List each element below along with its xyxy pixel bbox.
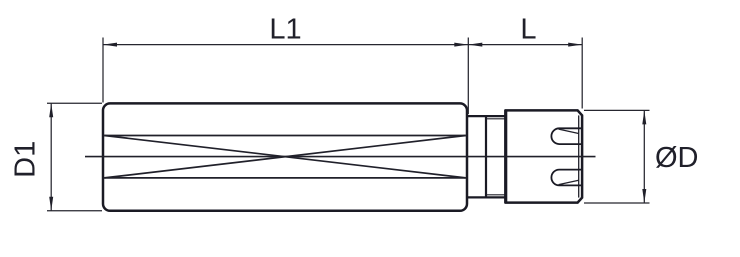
nut front rim inner edge (578, 115, 580, 197)
L arrow left (468, 43, 482, 47)
dimension line L1 (103, 44, 468, 46)
dimension line D1 (50, 103, 52, 210)
dimension shared extension line (L1/L) (467, 38, 469, 115)
dimension line L (468, 44, 582, 46)
collet nut outline (506, 110, 582, 202)
OD arrow up (642, 110, 646, 124)
svg-text:L: L (520, 14, 536, 46)
svg-text:L1: L1 (269, 14, 301, 46)
bore line lower (104, 177, 466, 179)
nut back face edge (left, heavier) (504, 110, 507, 203)
D1 arrow down (49, 197, 53, 211)
dimension D1 extension line bottom (47, 210, 102, 212)
OD arrow down (642, 189, 646, 203)
neck bottom edge (467, 196, 505, 198)
wrench slot upper (551, 128, 582, 144)
cross diagonal 1 (104, 136, 466, 178)
wrench slot upper floor line (559, 129, 579, 133)
wrench slot lower floor line (559, 180, 579, 184)
dimension L1 extension line left (102, 38, 104, 103)
thread line bottom (486, 194, 505, 196)
cross diagonal 2 (104, 136, 466, 178)
L arrow right (568, 43, 582, 47)
thread line top (486, 118, 505, 120)
wrench slot lower (551, 170, 582, 186)
L1 arrow left (103, 43, 117, 47)
tool body (main cylindrical shank) (103, 103, 467, 210)
bore line upper (104, 135, 466, 137)
svg-text:D1: D1 (10, 141, 42, 178)
dimension line OD (643, 110, 645, 203)
neck top edge (467, 115, 505, 117)
dimension OD extension line bottom (584, 202, 650, 204)
D1 arrow up (49, 103, 53, 117)
L1 arrow right (454, 43, 468, 47)
dimension L extension line right (581, 38, 583, 109)
dimension OD extension line top (584, 109, 650, 111)
centerline (85, 156, 596, 158)
svg-text:ØD: ØD (655, 142, 699, 174)
dimension D1 extension line top (47, 102, 102, 104)
neck divider (485, 116, 487, 197)
